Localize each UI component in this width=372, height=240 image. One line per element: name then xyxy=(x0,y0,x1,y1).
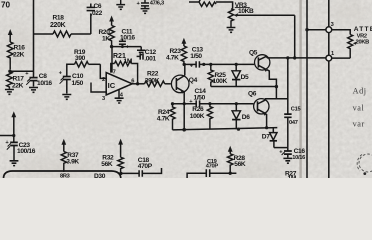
transistor Q5 xyxy=(249,49,270,72)
node R23/Q4 collector xyxy=(183,63,186,76)
resistor R27 label xyxy=(285,170,297,181)
resistor R20 1K xyxy=(99,26,115,47)
svg-text:4.7K: 4.7K xyxy=(157,115,170,122)
resistor R26 100K xyxy=(190,104,213,130)
dashed connector circle bottom-right xyxy=(357,154,372,175)
svg-text:10/16: 10/16 xyxy=(37,80,52,87)
svg-text:100K: 100K xyxy=(213,78,228,85)
top resistor (cut) and VR3 xyxy=(189,0,233,9)
wire from left edge to C23 branch xyxy=(0,134,15,137)
svg-text:7: 7 xyxy=(113,70,116,76)
svg-text:10/16: 10/16 xyxy=(120,35,135,42)
top ground stub x=120.7 xyxy=(116,0,125,9)
svg-text:56K: 56K xyxy=(101,161,113,168)
transistor Q4 xyxy=(171,75,197,94)
svg-text:3.9K: 3.9K xyxy=(66,159,79,166)
svg-text:D6: D6 xyxy=(242,114,250,121)
svg-text:56K: 56K xyxy=(234,161,246,168)
capacitor C11 10/16 xyxy=(119,28,136,50)
scan fold artifact line xyxy=(299,0,301,178)
transistor Q6 xyxy=(248,91,269,116)
resistor R21 1M feedback xyxy=(111,53,138,84)
supply arrow above R16 xyxy=(8,29,13,42)
svg-text:Q5: Q5 xyxy=(249,49,258,56)
diode D6 xyxy=(232,104,250,130)
ground below C7 xyxy=(141,9,150,14)
diode D7 xyxy=(262,128,277,148)
resistor R18 220K xyxy=(34,15,91,38)
capacitor C10 1/50 xyxy=(59,64,84,93)
supply arrow above R20 xyxy=(109,16,114,26)
svg-text:1/50: 1/50 xyxy=(72,80,84,87)
svg-text:22K: 22K xyxy=(13,52,25,59)
svg-text:390: 390 xyxy=(75,55,86,62)
svg-text:R18: R18 xyxy=(53,15,65,22)
output node dot xyxy=(136,82,139,85)
text 70 top-left xyxy=(1,1,11,10)
svg-text:22K: 22K xyxy=(12,83,24,90)
potentiometer VR3 10KB xyxy=(228,2,294,27)
svg-text:var: var xyxy=(353,119,365,128)
svg-text:8R3: 8R3 xyxy=(60,174,70,178)
resistor R17 22K xyxy=(7,71,25,89)
svg-text:D30: D30 xyxy=(94,173,106,178)
svg-text:470P: 470P xyxy=(138,163,153,170)
svg-text:10KB: 10KB xyxy=(238,8,254,15)
svg-text:4.7K: 4.7K xyxy=(166,55,179,62)
resistor R23 4.7K xyxy=(166,46,187,63)
svg-text:C16: C16 xyxy=(294,148,306,155)
svg-text:Adj: Adj xyxy=(353,86,367,95)
svg-text:220K: 220K xyxy=(50,22,66,29)
resistor R37 3.9K xyxy=(61,152,79,173)
resistor R22 390K xyxy=(132,71,171,87)
op-amp pin7 supply wire xyxy=(111,47,113,73)
node 3 xyxy=(326,22,334,33)
partial text below R37 xyxy=(60,174,70,180)
ground below C23 xyxy=(10,161,19,166)
capacitor C8 10/16 xyxy=(25,71,52,87)
junction node R16/R17 xyxy=(8,70,33,73)
svg-text:C15: C15 xyxy=(291,107,301,113)
capacitor C6 .022 xyxy=(87,3,103,34)
magazine text fragments right edge xyxy=(353,86,367,128)
svg-text:,022: ,022 xyxy=(91,10,103,17)
resistor R24 4.7K xyxy=(157,104,175,130)
svg-text:C10: C10 xyxy=(72,73,84,80)
svg-text:1M: 1M xyxy=(288,175,297,178)
svg-text:047: 047 xyxy=(289,120,298,126)
V+ node wire xyxy=(110,45,141,48)
svg-text:100/16: 100/16 xyxy=(17,148,36,155)
op-amp IC xyxy=(102,70,134,102)
op-amp pin4 ground xyxy=(115,89,124,103)
resistor R28 56K xyxy=(228,154,246,173)
svg-text:1/50: 1/50 xyxy=(190,53,202,60)
supply arrow above R37 xyxy=(61,139,66,152)
svg-text:.001: .001 xyxy=(144,56,156,63)
svg-text:ATTE: ATTE xyxy=(354,26,372,33)
svg-text:470P: 470P xyxy=(206,164,219,170)
attenuator VR2 20KB xyxy=(332,26,372,58)
capacitor C14 1/50 xyxy=(171,88,254,107)
paper background xyxy=(0,0,372,180)
svg-text:47/6,3: 47/6,3 xyxy=(150,1,164,7)
svg-text:3: 3 xyxy=(331,22,334,28)
ground below R17 xyxy=(5,90,14,95)
svg-text:70: 70 xyxy=(1,1,11,10)
supply arrow above R23 xyxy=(182,38,187,46)
svg-text:10/16: 10/16 xyxy=(292,155,305,161)
Q6 emitter lead down xyxy=(265,113,268,129)
node wire D7/C15/C16 xyxy=(274,147,288,149)
capacitor C13 1/50 xyxy=(184,46,203,69)
supply arrow above C23 xyxy=(11,111,16,135)
svg-text:R17: R17 xyxy=(13,76,25,83)
partial text D30 xyxy=(94,173,106,180)
Q5 emitter path down xyxy=(267,70,278,99)
svg-text:val: val xyxy=(353,103,365,112)
resistor R25 100K xyxy=(208,64,227,86)
svg-text:D7: D7 xyxy=(262,134,270,141)
wire to node 3 xyxy=(305,28,326,31)
svg-text:3: 3 xyxy=(102,96,105,102)
supply arrow above R28 xyxy=(228,146,233,154)
capacitor C7 47/6.3 top xyxy=(137,0,164,8)
ground at V+ wire corner xyxy=(137,47,145,55)
vertical bus x=328.8 xyxy=(328,0,330,178)
svg-text:1: 1 xyxy=(331,51,334,57)
ground below VR3 xyxy=(227,28,236,33)
resistor R32 56K xyxy=(101,155,123,173)
Q5 collector wire to node 1 xyxy=(266,56,326,59)
ground below C16 xyxy=(283,158,292,163)
op-amp pin3 wire xyxy=(91,83,106,93)
node 1 xyxy=(326,51,334,61)
base rail to Q5 xyxy=(199,63,254,66)
vertical bus x=307 xyxy=(306,0,308,178)
svg-text:100K: 100K xyxy=(190,113,205,120)
capacitor C19 470P xyxy=(206,159,237,177)
ground below C8 xyxy=(29,88,38,93)
Q6 collector wire xyxy=(265,99,288,100)
capacitor C15 .047 xyxy=(284,58,300,148)
svg-text:C8: C8 xyxy=(39,73,47,80)
svg-text:20KB: 20KB xyxy=(356,39,370,45)
svg-text:Q4: Q4 xyxy=(189,77,198,84)
big oval bottom-left xyxy=(4,171,121,178)
left pair wire corner xyxy=(187,173,206,178)
svg-text:390K: 390K xyxy=(145,77,160,84)
svg-text:R16: R16 xyxy=(14,45,26,52)
wire R25/D5 bottoms to emitter node xyxy=(211,86,277,88)
wire VR3 wiper down to Q5 collector line xyxy=(294,15,296,58)
diode D5 xyxy=(232,64,249,86)
svg-text:1K: 1K xyxy=(102,36,110,43)
supply arrow above R32 xyxy=(118,139,123,158)
wire into op-amp pin2 xyxy=(100,64,106,78)
capacitor C18 470P xyxy=(119,157,161,177)
svg-text:2: 2 xyxy=(102,77,105,83)
svg-text:Q6: Q6 xyxy=(248,91,257,98)
resistor R16 22K xyxy=(7,42,25,70)
svg-text:1M: 1M xyxy=(124,58,133,65)
capacitor C23 100/16 xyxy=(5,136,35,161)
ground below C10 xyxy=(62,95,71,100)
svg-text:1/50: 1/50 xyxy=(194,95,206,102)
svg-text:IC: IC xyxy=(108,81,116,90)
resistor R19 390 xyxy=(74,49,100,67)
svg-text:D5: D5 xyxy=(241,74,249,81)
capacitor C12 .001 xyxy=(137,49,157,62)
wire vertical left bus x=33.5 xyxy=(33,0,35,76)
bottom emitter wire xyxy=(173,92,278,132)
capacitor C16 10/16 xyxy=(279,148,305,161)
